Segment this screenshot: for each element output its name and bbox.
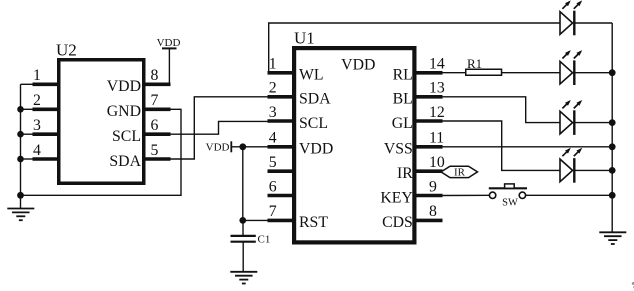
IC U1 body	[294, 48, 414, 242]
svg-text:SDA: SDA	[109, 153, 141, 170]
IC U2 body	[59, 60, 144, 184]
wire: RST node to U1 pin 7	[243, 219, 268, 221]
power VDD symbol at U1 pin 4	[206, 141, 268, 153]
ground G2 (under C1)	[230, 272, 257, 284]
svg-text:KEY: KEY	[380, 189, 412, 206]
U1 pin 8 (CDS)	[382, 203, 442, 231]
U1 refdes	[294, 29, 315, 48]
svg-text:WL: WL	[299, 67, 324, 84]
junction dot rail/pin2	[17, 106, 24, 113]
svg-text:8: 8	[429, 203, 437, 220]
wire: C1 to ground	[242, 243, 244, 272]
U1 pin 2 (SDA)	[268, 80, 332, 108]
svg-text:SCL: SCL	[299, 115, 328, 132]
U1 pin 6	[268, 178, 293, 195]
capacitor C1	[231, 234, 271, 246]
pushbutton switch SW	[489, 184, 527, 209]
wire: right cathode rail	[611, 23, 613, 232]
svg-text:6: 6	[269, 178, 277, 195]
U1 pin 13 (BL)	[393, 80, 445, 108]
U2 pin 1	[21, 67, 59, 84]
wire: WL net U1 pin1 up and across top to LED D1	[269, 23, 560, 72]
svg-text:VDD: VDD	[341, 57, 375, 74]
wire: SCL net U2 pin6 to U1 pin3	[171, 121, 269, 134]
svg-text:SDA: SDA	[299, 91, 331, 108]
wire: SW to right rail	[526, 194, 613, 196]
junction dot D2/rail	[609, 69, 616, 76]
svg-text:1: 1	[33, 67, 41, 84]
U1 pin 9 (KEY)	[380, 178, 442, 206]
svg-text:2: 2	[33, 92, 41, 109]
svg-text:5: 5	[151, 142, 159, 159]
U1 pin 3 (SCL)	[268, 104, 328, 132]
svg-text:3: 3	[33, 117, 41, 134]
LED D3	[560, 100, 582, 135]
svg-text:14: 14	[429, 56, 445, 73]
wire: LED D4 cathode to right rail	[576, 169, 613, 171]
U1 pin 7 (RST)	[268, 203, 329, 231]
svg-text:VDD: VDD	[299, 141, 333, 158]
U1 pin 4 (VDD)	[268, 130, 334, 158]
resistor R1	[466, 56, 502, 75]
wire: RST node to C1	[242, 220, 244, 235]
svg-text:12: 12	[429, 104, 445, 121]
U1 internal VDD label	[341, 57, 375, 74]
wire: VDD node down to RST node	[242, 147, 244, 221]
svg-text:7: 7	[269, 203, 277, 220]
svg-text:GND: GND	[107, 103, 141, 120]
svg-text:VDD: VDD	[206, 141, 230, 153]
U1 pin 10 (IR)	[397, 154, 445, 182]
U2 refdes	[56, 41, 77, 60]
junction dot rail/gnd wire	[17, 192, 24, 199]
ground G1 (left rail)	[7, 209, 34, 221]
wire: GL net U1 pin12 to LED D4	[443, 121, 560, 170]
svg-text:SCL: SCL	[112, 128, 141, 145]
svg-text:RST: RST	[299, 214, 328, 231]
svg-text:9: 9	[429, 178, 437, 195]
svg-text:U1: U1	[294, 29, 315, 48]
svg-text:VDD: VDD	[157, 37, 181, 49]
svg-text:4: 4	[269, 130, 277, 147]
ground G3 (right rail)	[599, 232, 626, 244]
LED D2	[560, 50, 582, 85]
svg-text:R1: R1	[467, 56, 482, 71]
junction dot RST/C1	[239, 217, 246, 224]
U2 pin 6 (SCL)	[112, 117, 170, 145]
svg-text:IR: IR	[397, 165, 413, 182]
scan artifact bottom right corner	[632, 282, 634, 288]
LED D1	[560, 0, 582, 35]
wire: KEY net U1 pin9 to SW	[443, 194, 490, 196]
junction dot rail/pin3	[17, 131, 24, 138]
svg-text:SW: SW	[502, 197, 518, 208]
svg-text:10: 10	[429, 154, 445, 171]
U2 pin 5 (SDA)	[109, 142, 170, 170]
power VDD symbol above U2 pin 8	[157, 37, 181, 84]
wire: U2 input rail (pins 1-4 to ground)	[20, 84, 22, 195]
svg-text:7: 7	[151, 92, 159, 109]
wire: BL net U1 pin13 to LED D3	[443, 97, 560, 123]
svg-text:8: 8	[151, 67, 159, 84]
svg-text:BL: BL	[393, 91, 413, 108]
svg-text:11: 11	[429, 130, 444, 147]
junction dot rail/pin4	[17, 156, 24, 163]
svg-text:RL: RL	[393, 67, 413, 84]
junction dot D4/rail	[609, 167, 616, 174]
U1 pin 1 (WL)	[268, 56, 324, 84]
U1 pin 5	[268, 154, 293, 171]
U2 pin 4	[21, 142, 59, 159]
svg-text:C1: C1	[258, 234, 271, 246]
wire: R1 to LED D2	[502, 72, 560, 74]
wire: LED D3 cathode to right rail	[576, 122, 613, 124]
svg-text:U2: U2	[56, 41, 77, 60]
U2 pin 8 (VDD)	[107, 67, 171, 95]
LED D4	[560, 148, 582, 183]
svg-text:3: 3	[269, 104, 277, 121]
junction dot VSS/rail	[609, 143, 616, 150]
wire: SDA net U2 pin5 to U1 pin2	[171, 97, 269, 159]
svg-text:1: 1	[269, 56, 277, 73]
svg-text:IR: IR	[454, 167, 466, 179]
junction dot VDD/pin4	[239, 143, 246, 150]
wire: U1 pin14 to R1	[443, 72, 466, 74]
svg-text:VSS: VSS	[384, 141, 413, 158]
svg-text:VDD: VDD	[107, 78, 141, 95]
U1 pin 14 (RL)	[393, 56, 445, 84]
svg-text:4: 4	[33, 142, 41, 159]
junction dot SW/rail	[609, 192, 616, 199]
svg-text:5: 5	[269, 154, 277, 171]
net flag IR on U1 pin10	[441, 166, 478, 178]
svg-text:6: 6	[151, 117, 159, 134]
U1 pin 11 (VSS)	[384, 130, 444, 158]
U2 pin 2	[21, 92, 59, 109]
wire: ground rail stem	[20, 195, 22, 208]
svg-text:2: 2	[269, 80, 277, 97]
svg-text:13: 13	[429, 80, 445, 97]
wire: LED D1 cathode to right rail	[576, 22, 613, 24]
wire: LED D2 cathode to right rail	[576, 72, 613, 74]
junction dot D3/rail	[609, 119, 616, 126]
U1 pin 12 (GL)	[392, 104, 445, 132]
U2 pin 3	[21, 117, 59, 134]
U2 pin 7 (GND)	[107, 92, 171, 120]
wire: VSS net U1 pin11 to right rail	[443, 146, 613, 148]
wire: U2 GND (pin 7) down and across to left ground rail	[21, 109, 182, 195]
svg-text:GL: GL	[392, 115, 413, 132]
svg-text:CDS: CDS	[382, 214, 413, 231]
